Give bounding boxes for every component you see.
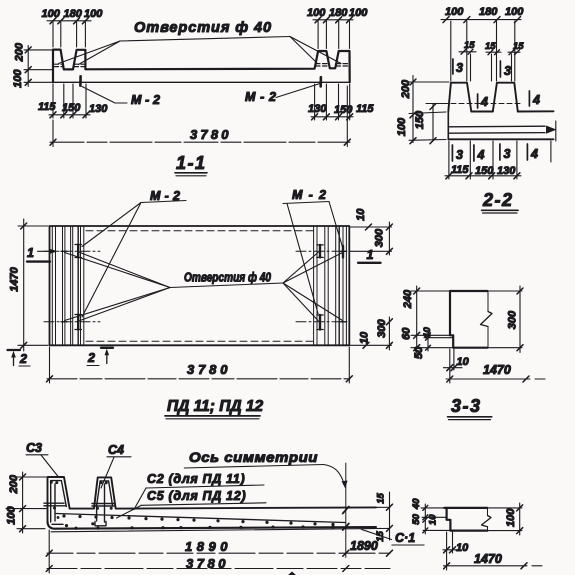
svg-text:100: 100 bbox=[396, 117, 408, 136]
right dim 300 bbox=[489, 286, 523, 353]
extension verticals below flange bbox=[449, 141, 551, 179]
svg-text:3780: 3780 bbox=[190, 127, 230, 142]
svg-text:180: 180 bbox=[329, 7, 348, 19]
svg-text:С5 (для ПД 12): С5 (для ПД 12) bbox=[147, 489, 246, 503]
svg-text:10: 10 bbox=[457, 356, 470, 368]
left bottom corner curve and bottom edge bbox=[48, 522, 377, 529]
right dims 300 and 10 lower bbox=[350, 317, 392, 350]
svg-text:40: 40 bbox=[411, 498, 422, 510]
bottom-left dim 115 150 130 bbox=[38, 84, 108, 118]
right rib lines in plan bbox=[314, 226, 347, 345]
dim 3780 bbox=[46, 556, 390, 572]
left rib lines in plan bbox=[52, 226, 84, 345]
overall dim 3780 bbox=[50, 86, 350, 147]
bottom dim 1470 bbox=[446, 363, 545, 382]
top-left dim 100 180 100 bbox=[42, 8, 104, 47]
callout leader fan left bbox=[65, 253, 171, 288]
bottom dim 3780 bbox=[47, 347, 353, 383]
svg-text:1470: 1470 bbox=[8, 266, 20, 291]
break line with zigzag bbox=[482, 508, 492, 531]
left dims 40 / 50 / 10 bbox=[411, 498, 450, 534]
svg-text:100: 100 bbox=[505, 508, 517, 527]
svg-text:1470: 1470 bbox=[483, 363, 511, 377]
svg-text:3: 3 bbox=[504, 64, 511, 78]
hole dashed lines in right ribs bbox=[316, 64, 349, 66]
left dim stack 200 / 100 bbox=[12, 42, 52, 88]
right dims 10 and 300 upper bbox=[350, 208, 392, 255]
block outline with corner notch (thick) bbox=[444, 508, 487, 531]
view label 3-3 bbox=[448, 396, 492, 420]
svg-text:130: 130 bbox=[497, 165, 516, 177]
svg-text:Отверстия ф 40: Отверстия ф 40 bbox=[184, 271, 271, 285]
hole axis lines upper bbox=[44, 251, 350, 321]
three 15 dims bbox=[459, 40, 524, 81]
svg-text:100: 100 bbox=[84, 8, 103, 20]
left dim 1470 bbox=[8, 219, 48, 351]
svg-text:М-2: М-2 bbox=[245, 90, 276, 104]
left dims 200 / 100 bbox=[5, 472, 46, 533]
svg-text:3: 3 bbox=[456, 148, 463, 162]
svg-text:130: 130 bbox=[89, 103, 108, 115]
svg-text:10: 10 bbox=[428, 514, 439, 525]
svg-text:С4: С4 bbox=[108, 443, 124, 457]
svg-text:115: 115 bbox=[451, 164, 469, 176]
svg-text:115: 115 bbox=[356, 103, 374, 115]
PLAN VIEW bbox=[8, 188, 393, 419]
svg-text:115: 115 bbox=[38, 101, 56, 113]
svg-text:50: 50 bbox=[411, 513, 422, 524]
svg-text:100: 100 bbox=[12, 69, 24, 88]
symmetry arrow mark on 3780 line bbox=[288, 572, 297, 575]
svg-text:60: 60 bbox=[400, 327, 412, 340]
rib 2 trapezoid bbox=[493, 83, 518, 112]
inner step dims 10 / 50 bbox=[413, 327, 453, 360]
svg-text:100: 100 bbox=[505, 6, 524, 18]
svg-text:С3: С3 bbox=[26, 441, 42, 455]
M-2 embedded mark right bbox=[319, 77, 322, 86]
flange top thin extension with end tick bbox=[376, 506, 390, 508]
svg-text:300: 300 bbox=[373, 228, 385, 247]
callout underline bbox=[120, 37, 290, 42]
svg-text:3: 3 bbox=[504, 147, 511, 161]
svg-text:3780: 3780 bbox=[187, 362, 229, 377]
section cut 2 left bbox=[8, 350, 31, 366]
svg-text:С2 (для ПД 11): С2 (для ПД 11) bbox=[147, 472, 245, 486]
svg-text:Отверстия ф 40: Отверстия ф 40 bbox=[134, 20, 272, 36]
svg-text:4: 4 bbox=[530, 147, 538, 161]
slab outline rectangle bbox=[50, 226, 350, 345]
bottom step dim 10 bbox=[443, 532, 469, 570]
C-1 DETAIL bbox=[361, 498, 542, 570]
flange left edge bbox=[447, 112, 449, 140]
svg-text:15: 15 bbox=[376, 493, 387, 504]
svg-text:2-2: 2-2 bbox=[482, 190, 514, 210]
svg-text:1890: 1890 bbox=[350, 539, 378, 553]
break line with zigzag bbox=[481, 291, 493, 348]
flange bottom edge bbox=[448, 138, 553, 140]
svg-text:3-3: 3-3 bbox=[451, 396, 482, 416]
view label PD11 PD12 bbox=[165, 398, 263, 419]
block outline with corner notch (thick) bbox=[450, 291, 488, 348]
bottom step dim 10 bbox=[444, 349, 470, 383]
top extension left bbox=[421, 507, 444, 509]
svg-text:ПД 11; ПД 12: ПД 11; ПД 12 bbox=[167, 398, 263, 415]
hole dash marks bbox=[61, 251, 346, 321]
svg-text:300: 300 bbox=[376, 318, 388, 337]
rib 1 trapezoid bbox=[448, 83, 471, 112]
svg-text:150: 150 bbox=[334, 104, 353, 116]
mesh C2 / C5 line bbox=[56, 514, 345, 523]
rebar position marks |3 |4 lower row bbox=[452, 144, 538, 162]
flange top line segments bbox=[471, 110, 553, 112]
half-slab outline with two ribs (thick) bbox=[48, 477, 377, 522]
M-2 anchor marks with serifs bbox=[78, 245, 343, 330]
stirrup C3 in rib 1 bbox=[44, 481, 66, 525]
section cut 2 right bbox=[87, 348, 113, 366]
svg-text:15: 15 bbox=[485, 41, 496, 52]
callout leaders to right ribs bbox=[290, 37, 317, 64]
slab top profile with four ribs (thick) bbox=[53, 50, 350, 83]
svg-text:1: 1 bbox=[367, 248, 374, 262]
svg-text:1890: 1890 bbox=[185, 539, 229, 554]
M-2 embedded mark left bbox=[79, 76, 82, 85]
svg-text:4: 4 bbox=[480, 95, 488, 109]
SECTION 2-2 bbox=[396, 6, 557, 213]
symmetry axis vertical line bbox=[345, 463, 347, 558]
axis cross ticks on slab lines bbox=[343, 507, 349, 531]
callout leader fan right bbox=[283, 253, 318, 284]
svg-text:С·1: С·1 bbox=[395, 531, 415, 545]
svg-text:1-1: 1-1 bbox=[176, 153, 207, 173]
svg-text:100: 100 bbox=[445, 6, 464, 18]
svg-text:50: 50 bbox=[413, 346, 425, 359]
view label 1-1 bbox=[175, 153, 207, 176]
svg-text:М-2: М-2 bbox=[131, 93, 160, 107]
svg-text:10: 10 bbox=[355, 208, 367, 221]
view label 2-2 bbox=[482, 190, 518, 213]
left dims 240 / 60 bbox=[400, 286, 452, 353]
svg-text:100: 100 bbox=[307, 7, 326, 19]
svg-text:240: 240 bbox=[402, 289, 414, 309]
mesh plate band with arrow end bbox=[450, 126, 546, 133]
svg-text:4: 4 bbox=[532, 93, 540, 107]
bottom mesh C-1 line bbox=[51, 528, 390, 531]
svg-text:300: 300 bbox=[506, 310, 518, 329]
svg-text:2: 2 bbox=[19, 352, 27, 366]
hidden dashed lines near top and bottom edges bbox=[86, 230, 313, 232]
slab bottom edge bbox=[53, 81, 350, 83]
svg-text:200: 200 bbox=[13, 42, 25, 62]
dim 1890 + 1890 bbox=[46, 530, 392, 573]
SECTION 3-3 bbox=[400, 286, 545, 420]
svg-text:150: 150 bbox=[62, 102, 81, 114]
svg-text:1: 1 bbox=[27, 246, 34, 260]
SECTION 1-1 bbox=[12, 7, 375, 176]
stirrup C4 in rib 2 bbox=[92, 481, 114, 526]
svg-text:100: 100 bbox=[42, 8, 61, 20]
top dim 100 180 100 bbox=[441, 6, 524, 81]
mesh C2 wire dots bbox=[62, 514, 334, 526]
BOTTOM REINFORCEMENT SECTION bbox=[5, 441, 392, 575]
svg-text:М-2: М-2 bbox=[292, 188, 326, 202]
svg-text:10: 10 bbox=[456, 542, 469, 554]
svg-text:1470: 1470 bbox=[474, 552, 502, 566]
bottom rebar dots bbox=[74, 525, 334, 530]
svg-text:180: 180 bbox=[479, 6, 498, 18]
bottom dim 1470 bbox=[444, 552, 543, 569]
svg-text:2: 2 bbox=[87, 351, 95, 365]
svg-text:3: 3 bbox=[456, 61, 463, 75]
rebar position marks |3 |4 upper bbox=[453, 59, 540, 109]
hole dashed line through ribs bbox=[443, 103, 522, 105]
right dim 100 bbox=[489, 503, 523, 535]
svg-text:4: 4 bbox=[477, 148, 485, 162]
left dims 200 / 150 / 100 bbox=[396, 76, 449, 144]
right end 15 dims bbox=[375, 492, 392, 542]
bottom dim 115 150 130 bbox=[445, 164, 521, 179]
top-right dim 100 180 100 bbox=[307, 7, 368, 49]
hole dashed lines in left ribs bbox=[54, 64, 85, 66]
bottom-right dim 130 150 115 bbox=[308, 84, 374, 120]
callout leaders to left ribs bbox=[59, 41, 121, 64]
svg-text:Ось симметрии: Ось симметрии bbox=[189, 449, 318, 465]
